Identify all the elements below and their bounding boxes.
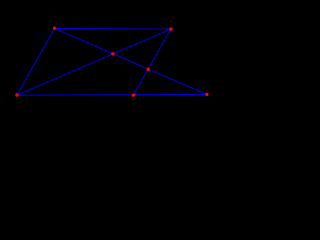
node O (intersection of diagonals AC and DB) — [111, 52, 114, 55]
node P (intersection of AC and BM) — [147, 68, 150, 71]
node C (bottom-right vertex) — [205, 93, 208, 96]
node M (on bottom edge DC) — [132, 93, 135, 96]
wire segment DC (bottom edge) — [17, 93, 207, 96]
wire segment AC (diagonal) — [55, 28, 207, 94]
node B (top-right vertex) — [169, 27, 172, 30]
node A (top-left vertex) — [53, 27, 56, 30]
wire segment BM (cevian) — [133, 29, 171, 95]
wire segment DB (diagonal) — [17, 29, 171, 95]
wire segment AB (top edge) — [55, 27, 171, 30]
node D (bottom-left vertex) — [15, 93, 18, 96]
wire segment AD (left edge) — [17, 28, 55, 95]
